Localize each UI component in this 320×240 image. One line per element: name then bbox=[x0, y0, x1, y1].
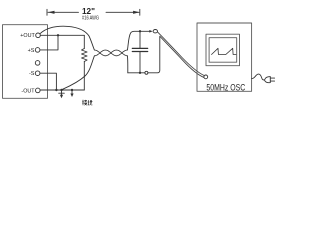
resistor R1 bottom lead bbox=[83, 62, 85, 91]
wire twisted pair bottom rise bbox=[63, 56, 95, 90]
probe cable line 1 bbox=[157, 32, 204, 76]
resistor R1 top lead bbox=[83, 35, 85, 48]
wire +S jumper bbox=[40, 35, 58, 50]
node junction ground2 bbox=[71, 89, 73, 91]
probe tip loop bbox=[153, 30, 157, 33]
twisted pair strand A bbox=[94, 50, 127, 56]
wire bottom line to shield rise bbox=[128, 37, 160, 73]
power plug prongs bbox=[270, 78, 274, 81]
node junction cap top bbox=[139, 30, 141, 32]
svg-text:50MHz OSC: 50MHz OSC bbox=[206, 82, 245, 92]
wire twisted pair top arch bbox=[40, 26, 94, 50]
dimension right tick bbox=[139, 9, 141, 15]
oscilloscope outer box bbox=[197, 23, 252, 91]
power plug body bbox=[265, 77, 271, 83]
dimension right arrow line bbox=[106, 11, 139, 13]
connector circle on ground lead bbox=[145, 71, 148, 74]
terminal +S bbox=[35, 48, 40, 53]
wire +OUT horizontal to resistor top bbox=[40, 34, 84, 36]
probe tip arrow bbox=[149, 30, 152, 33]
waveform sawtooth bbox=[212, 48, 237, 54]
terminal -S bbox=[35, 71, 40, 76]
label ground (di) bbox=[88, 100, 93, 105]
svg-text:-S: -S bbox=[29, 71, 35, 77]
wire -S jumper bbox=[40, 73, 57, 90]
capacitor C1 bottom lead bbox=[139, 52, 141, 73]
probe cable line 2 bbox=[160, 36, 204, 77]
node junction -S/-OUT bbox=[55, 89, 57, 91]
power cord bbox=[252, 74, 265, 80]
svg-text:-OUT: -OUT bbox=[21, 88, 35, 94]
dimension left arrow line bbox=[48, 11, 79, 13]
terminal middle bbox=[35, 61, 40, 66]
wire -OUT horizontal bbox=[40, 89, 84, 91]
oscilloscope screen bbox=[209, 38, 237, 63]
node junction ground1 bbox=[60, 89, 62, 91]
wire braid exit to top line bbox=[127, 31, 151, 50]
svg-text:+S: +S bbox=[28, 48, 35, 54]
power supply box bbox=[3, 25, 48, 99]
oscilloscope bezel bbox=[206, 34, 240, 65]
scope input connector bbox=[204, 75, 208, 79]
node junction +S/+OUT bbox=[57, 34, 59, 36]
node junction cap bottom bbox=[139, 72, 141, 74]
ground arrow 1 bbox=[59, 90, 65, 98]
capacitor C1 top lead bbox=[139, 31, 141, 48]
resistor R1 bbox=[82, 49, 88, 62]
terminal +OUT bbox=[36, 33, 41, 38]
ground arrow 2 bbox=[70, 90, 73, 97]
dimension left tick bbox=[46, 9, 48, 15]
wire braid exit to bottom line bbox=[126, 56, 128, 73]
twisted pair strand B bbox=[94, 50, 127, 56]
terminal -OUT bbox=[36, 88, 41, 93]
svg-text:#16 AWG: #16 AWG bbox=[82, 16, 99, 22]
capacitor C1 plates bbox=[132, 48, 147, 51]
svg-text:+OUT: +OUT bbox=[20, 33, 35, 39]
label ground (jie) bbox=[82, 100, 87, 105]
